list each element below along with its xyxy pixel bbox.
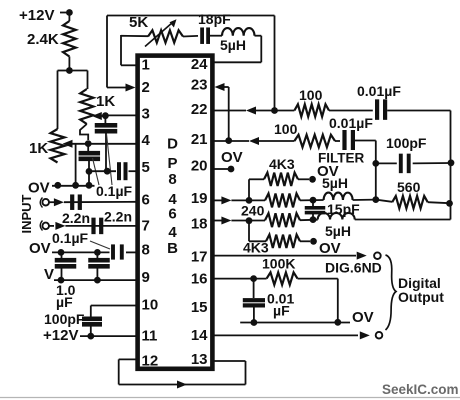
- capacitor C10 18pF: [200, 27, 204, 44]
- svg-text:20: 20: [191, 158, 208, 175]
- resistor R8 4K3: [264, 173, 298, 186]
- leader line C6: [90, 241, 110, 249]
- svg-text:0.01µF: 0.01µF: [329, 115, 373, 131]
- wire 560 right: [428, 202, 450, 203]
- leader line C1: [107, 134, 113, 185]
- svg-text:12: 12: [142, 353, 159, 370]
- resistor R10 4K3 mid: [265, 213, 300, 227]
- terminal input 2: [42, 223, 49, 230]
- svg-text:1K: 1K: [96, 93, 115, 110]
- inductor L3 5uH: [318, 213, 355, 220]
- wire pin 22 line: [212, 110, 246, 112]
- wire C12 to filter node: [355, 140, 376, 142]
- svg-text:100pF: 100pF: [44, 311, 85, 327]
- svg-text:2: 2: [142, 79, 150, 96]
- svg-text:17: 17: [191, 249, 208, 266]
- node OV dot 1: [54, 182, 61, 189]
- svg-text:3: 3: [142, 106, 150, 123]
- wire 100K right: [298, 278, 338, 280]
- wire 4K3 bottom left: [248, 221, 250, 242]
- wire pin 6 line: [49, 201, 54, 203]
- svg-text:13: 13: [191, 351, 208, 368]
- wire pin 4: [88, 143, 137, 145]
- svg-text:µF: µF: [56, 294, 73, 310]
- svg-text:11: 11: [142, 328, 158, 345]
- svg-text:10: 10: [142, 297, 159, 314]
- arrow pin 22: [246, 107, 256, 115]
- node pin5 dot: [104, 168, 111, 175]
- svg-text:4K3: 4K3: [269, 156, 295, 172]
- svg-text:6: 6: [142, 192, 150, 209]
- svg-text:D: D: [167, 136, 178, 153]
- wire to L3: [300, 219, 318, 222]
- node 15pF top dot: [310, 197, 317, 204]
- svg-text:8: 8: [168, 171, 176, 188]
- op-amp U1 DP8464B body: [138, 56, 213, 369]
- resistor R5 100: [294, 104, 329, 116]
- capacitor C2 0.1uF: [87, 144, 89, 151]
- capacitor C13 100pF: [399, 154, 403, 174]
- svg-text:7: 7: [142, 218, 150, 235]
- wire node A right: [69, 70, 87, 72]
- input brace upper: [40, 198, 42, 208]
- svg-text:0.1µF: 0.1µF: [52, 230, 89, 246]
- wire pin 23: [215, 83, 225, 91]
- wire L2 to filter node: [353, 199, 376, 201]
- inductor L2 5uH: [324, 193, 353, 200]
- wire pin 8 line: [52, 251, 110, 253]
- leader line C2: [93, 158, 100, 185]
- wire R6 to C12: [335, 140, 340, 142]
- svg-text:19: 19: [191, 190, 208, 207]
- wiper arrow R3: [92, 112, 102, 120]
- wire pin 12 loop: [119, 358, 137, 360]
- wire C11 to right rail: [387, 110, 450, 112]
- wire pin 10 line: [91, 305, 137, 307]
- wire pin 11 line: [80, 335, 137, 337]
- wire R1 to node A: [68, 57, 70, 72]
- svg-text:0.1µF: 0.1µF: [96, 183, 133, 199]
- wire pin 20 stub: [212, 168, 228, 170]
- wire pin 21 line: [212, 140, 249, 142]
- svg-text:22: 22: [191, 101, 208, 118]
- resistor R6 100: [294, 135, 335, 147]
- arrow pin 21: [249, 137, 259, 145]
- capacitor C6 0.1uF: [111, 244, 115, 259]
- wire +12V to R1: [68, 13, 70, 22]
- wire R3 bottom lead: [80, 124, 88, 140]
- wire right rail: [450, 111, 452, 220]
- wire pin 9 line: [54, 279, 137, 281]
- resistor R2 1K lower: [51, 129, 65, 163]
- capacitor C12 0.01uF FILTER: [342, 130, 346, 150]
- svg-text:5µH: 5µH: [220, 37, 246, 53]
- svg-text:6: 6: [168, 206, 176, 223]
- node filter top: [372, 160, 379, 167]
- inductor L1 5uH: [222, 28, 254, 36]
- svg-text:INPUT: INPUT: [19, 194, 34, 233]
- resistor R7 560: [392, 196, 428, 208]
- svg-text:560: 560: [397, 179, 421, 195]
- svg-text:100: 100: [299, 87, 323, 103]
- resistor R11 4K3: [266, 235, 300, 248]
- svg-text:OV: OV: [29, 240, 51, 257]
- svg-text:V: V: [44, 266, 54, 283]
- svg-text:100: 100: [274, 121, 298, 137]
- wire OV rail: [52, 185, 95, 187]
- node right rail mid dot: [446, 200, 453, 207]
- wiper arrow R2: [63, 140, 73, 148]
- node pin9 dot 1: [58, 277, 65, 284]
- resistor R12 100K: [267, 272, 298, 284]
- arrow bottom loop: [177, 381, 187, 389]
- capacitor C15 0.01uF: [253, 279, 255, 298]
- svg-text:DIG.6ND: DIG.6ND: [325, 260, 382, 276]
- svg-text:18: 18: [191, 216, 208, 233]
- svg-text:2.2n: 2.2n: [104, 209, 132, 225]
- svg-text:5K: 5K: [129, 14, 148, 31]
- node 100K bottom dot: [334, 319, 341, 326]
- node C2 pin5 junction: [86, 168, 93, 175]
- node pin19 dot: [246, 197, 253, 204]
- node pin8 dot 1: [58, 249, 65, 256]
- node pin18 dot: [246, 217, 253, 224]
- svg-text:4K3: 4K3: [243, 240, 269, 256]
- svg-text:21: 21: [191, 131, 208, 148]
- capacitor C4 2.2n: [70, 194, 74, 210]
- node pin8 dot 2: [94, 249, 101, 256]
- wire pin 19 stub: [212, 199, 223, 201]
- svg-text:µF: µF: [273, 303, 290, 319]
- svg-text:+12V: +12V: [19, 7, 54, 24]
- svg-text:2.4K: 2.4K: [27, 31, 59, 48]
- terminal DIG output: [374, 252, 381, 259]
- wire to L2: [300, 199, 324, 201]
- svg-text:+12V: +12V: [43, 327, 78, 344]
- wire 4K3 top left: [248, 179, 250, 200]
- node pin3 dot: [102, 112, 109, 119]
- node pin11 dot: [87, 333, 94, 340]
- wire node A left: [58, 70, 70, 72]
- svg-text:15: 15: [191, 299, 208, 316]
- node top loop junction: [271, 107, 278, 114]
- svg-text:24: 24: [191, 56, 208, 73]
- wire pin 14 line: [212, 334, 358, 336]
- svg-text:18pF: 18pF: [198, 11, 231, 27]
- node right rail top dot: [448, 159, 455, 166]
- capacitor C1 0.1uF: [104, 116, 106, 123]
- svg-text:P: P: [167, 155, 177, 172]
- svg-text:16: 16: [191, 271, 208, 288]
- wire pin 16 stub: [212, 278, 267, 280]
- wire pin 3: [105, 114, 137, 116]
- wire 560 left: [376, 200, 392, 202]
- wire C10 to coil: [210, 35, 222, 37]
- wire pin 2 loop: [107, 87, 129, 89]
- terminal input 1: [42, 199, 49, 206]
- page rule: [0, 397, 460, 399]
- terminal R11 OV dot: [310, 238, 317, 245]
- svg-text:5µH: 5µH: [322, 175, 348, 191]
- capacitor C14 15pF: [312, 200, 314, 206]
- node OV dot 2: [72, 182, 79, 189]
- wire pin 18 stub: [212, 220, 223, 222]
- svg-text:0.01µF: 0.01µF: [357, 83, 401, 99]
- svg-text:Output: Output: [398, 289, 444, 305]
- svg-text:23: 23: [191, 77, 208, 94]
- node pin21 pin23 junction: [225, 137, 232, 144]
- capacitor C8: [96, 252, 98, 258]
- resistor R3 1K upper: [80, 89, 93, 124]
- terminal pin20 OV dot: [228, 166, 235, 173]
- capacitor C11 0.01uF: [375, 99, 379, 120]
- svg-text:1K: 1K: [29, 140, 48, 157]
- svg-text:B: B: [167, 240, 178, 257]
- svg-text:240: 240: [241, 203, 265, 219]
- svg-text:8: 8: [142, 242, 150, 259]
- node filter bottom: [372, 196, 379, 203]
- capacitor C9 100pF: [82, 317, 102, 322]
- wire L1 to pin 24: [255, 35, 262, 37]
- node A junction: [66, 67, 73, 74]
- terminal +12V dot: [66, 9, 73, 16]
- wire inner top: [121, 35, 148, 37]
- pot arrow R4: [145, 23, 173, 47]
- svg-text:OV: OV: [319, 240, 341, 257]
- svg-text:5µH: 5µH: [325, 223, 351, 239]
- wire pot to C10: [183, 35, 198, 38]
- capacitor C3 0.1uF: [117, 162, 121, 180]
- node OV dot 3: [86, 182, 93, 189]
- resistor R1 2.4K: [63, 21, 76, 57]
- node 15pF bottom dot: [310, 216, 317, 223]
- wire R5 to C11: [329, 110, 373, 112]
- svg-text:1: 1: [142, 57, 150, 74]
- svg-text:4: 4: [142, 132, 151, 149]
- svg-text:4: 4: [168, 224, 177, 241]
- svg-text:OV: OV: [352, 309, 374, 326]
- terminal pin14 output: [376, 332, 383, 339]
- svg-text:5: 5: [142, 159, 150, 176]
- potentiometer R4 5K: [148, 30, 183, 42]
- wire digital OV line: [240, 322, 350, 324]
- node pin16 dot: [250, 275, 257, 282]
- terminal R8 OV dot: [309, 176, 316, 183]
- svg-text:SeekIC.com: SeekIC.com: [382, 382, 459, 397]
- node pin9 dot 2: [94, 277, 101, 284]
- capacitor C5 2.2n: [91, 218, 95, 235]
- wire R2 wiper to ground: [75, 144, 77, 185]
- brace digital output: [386, 255, 397, 330]
- svg-text:9: 9: [142, 269, 150, 286]
- svg-text:OV: OV: [28, 180, 50, 197]
- svg-text:14: 14: [191, 327, 208, 344]
- wire pin 5 line: [89, 170, 116, 172]
- svg-text:100K: 100K: [262, 256, 295, 272]
- input brace lower: [40, 221, 42, 231]
- node C15 bottom dot: [251, 319, 258, 326]
- node B junction: [85, 140, 92, 147]
- capacitor C7 1.0uF: [61, 252, 63, 258]
- wire pin 1 stub: [121, 64, 137, 66]
- svg-text:OV: OV: [221, 149, 243, 166]
- svg-text:2.2n: 2.2n: [62, 210, 90, 226]
- wire pin 7 line: [49, 225, 54, 227]
- wire pin 17 line: [212, 255, 356, 257]
- wire 100pF line: [376, 162, 397, 164]
- resistor R9 240: [265, 194, 300, 208]
- svg-text:100pF: 100pF: [386, 135, 427, 151]
